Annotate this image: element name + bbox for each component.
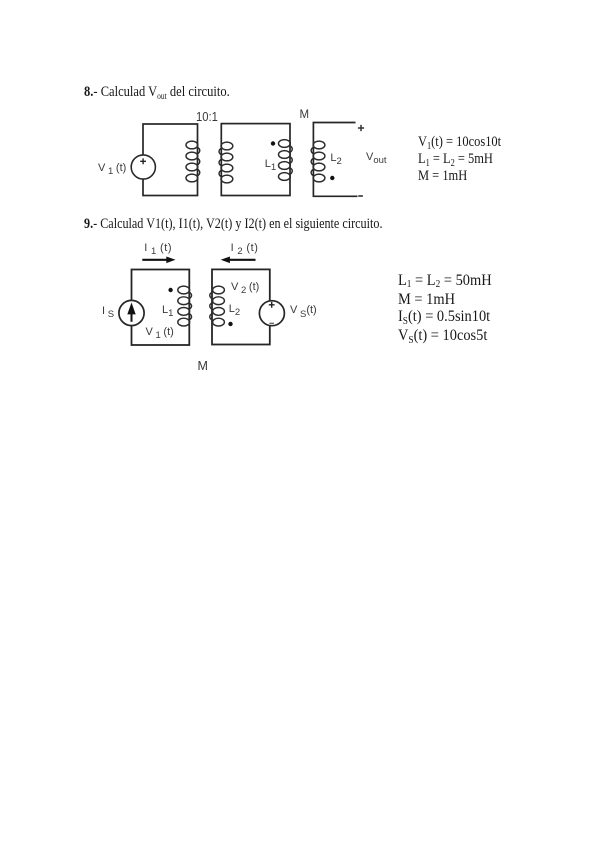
label L1 circuit 8 [265,158,276,170]
current source IS circuit 9 [119,300,144,325]
current arrow I2 circuit 9 [221,257,256,264]
label L1 circuit 9 [162,304,173,316]
dot mark L2 circuit 8 [330,176,334,180]
label IS circuit 9 [102,305,114,317]
dot mark L1 circuit 9 [168,288,172,292]
label M circuit 8 [300,109,310,121]
label L2 circuit 9 [229,303,240,315]
wire loop 2 circuit 8 [221,124,290,196]
label M circuit 9 [198,359,208,373]
label I1(t) circuit 9 [144,242,172,254]
minus terminal Vout [358,195,363,197]
label 10:1 transformer ratio [196,110,218,124]
label V1(t) circuit 9 [146,326,174,338]
label I2(t) circuit 9 [231,242,259,254]
inductor L1 coil circuit 8 [279,140,293,181]
label V1(t) source circuit 8 [98,162,126,174]
label V2(t) circuit 9 [231,281,259,293]
primary coil circuit 8 [186,141,200,182]
plus terminal Vout [358,125,364,131]
values text problem 8 [418,135,501,184]
dot mark L1 circuit 8 [271,141,275,145]
inductor L1 coil circuit 9 [178,286,192,326]
label Vout circuit 8 [366,151,387,163]
wire loop left circuit 9 [132,270,190,346]
wire loop 1 circuit 8 [143,124,198,196]
wire loop right circuit 9 [212,269,270,344]
inductor L2 coil circuit 9 [210,286,225,326]
label VS(t) circuit 9 [290,304,317,316]
heading problem 9 [84,217,382,232]
current arrow I1 circuit 9 [142,257,175,264]
voltage source VS circuit 9 [259,301,284,326]
wire L2 branch circuit 8 [313,123,357,197]
secondary coil circuit 8 [219,142,233,183]
heading problem 8 [84,85,230,101]
voltage source V1 circuit 8 [131,155,155,179]
label L2 circuit 8 [330,152,341,164]
values text problem 9 [398,272,492,347]
inductor L2 coil circuit 8 [311,141,325,182]
dot mark L2 circuit 9 [228,322,232,326]
